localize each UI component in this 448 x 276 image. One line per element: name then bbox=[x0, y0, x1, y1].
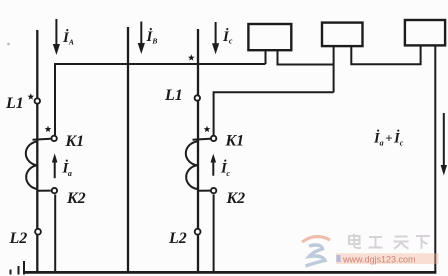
wire: CT2 K1 riser + horizontal run to box 2 left stub bbox=[214, 92, 334, 135]
svg-text:K2: K2 bbox=[66, 190, 86, 207]
svg-text:İB: İB bbox=[146, 28, 158, 46]
ammeter box 2 bbox=[322, 23, 363, 46]
watermark logo (电工天下 swirl) bbox=[302, 236, 330, 266]
watermark text 电工天下 (approximated strokes) bbox=[349, 234, 430, 249]
current arrow İA (phase A, pointing down) bbox=[53, 19, 60, 55]
return current arrow (down) beside right wire bbox=[441, 113, 447, 176]
svg-text:İc: İc bbox=[220, 160, 230, 179]
wire: CT1 K1 riser + horizontal run to ammeter box 1 bbox=[55, 64, 266, 135]
svg-text:L1: L1 bbox=[164, 87, 183, 104]
wire: phase B bus bbox=[127, 27, 129, 273]
CT2: secondary winding arcs on phase C bbox=[186, 142, 197, 190]
wire: box1 left terminal stub bbox=[265, 50, 267, 64]
CT1 terminal K2 (circle) bbox=[52, 188, 57, 193]
svg-text:www.dgjs123.com: www.dgjs123.com bbox=[342, 254, 416, 264]
svg-text:L2: L2 bbox=[168, 230, 187, 247]
ammeter box 1 bbox=[248, 24, 291, 50]
CT1 terminal L2 (circle) bbox=[35, 229, 41, 235]
wire: phase C bus bbox=[197, 29, 199, 273]
CT2 terminal K2 (circle) bbox=[211, 188, 216, 193]
CT1: secondary winding arcs on phase A bbox=[26, 142, 37, 190]
CT2 terminal L1 (circle) bbox=[195, 95, 200, 100]
CT2 terminal L2 (circle) bbox=[195, 229, 201, 235]
svg-text:İc: İc bbox=[222, 28, 233, 46]
CT1 terminal L1 (circle) bbox=[35, 98, 40, 103]
wire: bottom secondary return bus bbox=[23, 271, 436, 274]
CT2: winding-to-K2 connector bbox=[197, 190, 210, 192]
CT2 secondary current arrow (up) bbox=[211, 154, 217, 176]
wire: CT1 K2 riser down to return bus bbox=[54, 195, 56, 272]
svg-text:İa: İa bbox=[62, 160, 72, 179]
current arrow İC bbox=[212, 22, 219, 54]
scan artifact dot top-left bbox=[7, 43, 10, 46]
ground (earth) symbol ticks at left end of return bus bbox=[11, 261, 25, 275]
svg-text:L1: L1 bbox=[5, 95, 24, 112]
svg-text:K1: K1 bbox=[225, 133, 245, 150]
svg-text:K2: K2 bbox=[226, 190, 246, 207]
CT1: winding-to-K1 connector bbox=[33, 139, 51, 140]
svg-text:İa+İc: İa+İc bbox=[373, 130, 404, 148]
svg-text:K1: K1 bbox=[65, 133, 85, 150]
wire: box1 right terminal stub + run to box2 bbox=[278, 50, 334, 65]
CT1: winding-to-K2 connector bbox=[37, 190, 51, 192]
CT1 polarity star at K1 bbox=[45, 126, 52, 132]
CT2 terminal K1 (circle) bbox=[211, 136, 216, 141]
wire: box2 right terminal stub + run to box3 left stub bbox=[351, 45, 420, 64]
CT2 polarity star at K1 bbox=[204, 126, 211, 132]
watermark url band bbox=[336, 253, 439, 264]
CT1 terminal K1 (circle) bbox=[51, 136, 56, 141]
CT1 secondary current arrow (up) bbox=[52, 153, 58, 178]
svg-text:İA: İA bbox=[62, 29, 74, 47]
wire: phase A bus bbox=[36, 30, 38, 273]
wire: box2 left terminal stub (down to W2) bbox=[333, 46, 335, 92]
current arrow İB bbox=[138, 22, 145, 55]
wire: CT2 K2 riser down to return bus bbox=[213, 195, 215, 272]
CT2: winding-to-K1 connector bbox=[193, 139, 211, 140]
CT2 polarity star at bus C crossing bbox=[188, 54, 195, 60]
ammeter box 3 bbox=[405, 20, 445, 45]
wire: box3 right terminal long wire (İa+İc) down to return bus bbox=[434, 45, 436, 271]
CT1 polarity star at L1 bbox=[27, 93, 34, 99]
svg-text:L2: L2 bbox=[9, 230, 28, 247]
